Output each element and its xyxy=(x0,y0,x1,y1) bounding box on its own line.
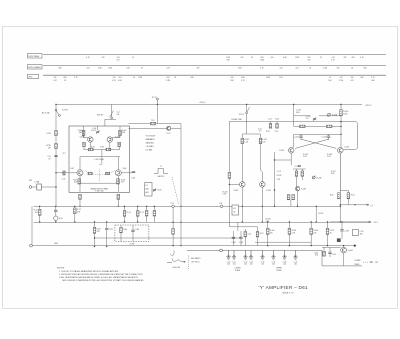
svg-text:8-50: 8-50 xyxy=(296,112,300,114)
resistor R-75 xyxy=(137,206,139,210)
capacitor C-84 in dashed box xyxy=(132,225,134,230)
junction right bus xyxy=(340,134,341,135)
low rail xyxy=(95,237,242,239)
capacitor C-243 on low rail xyxy=(232,237,235,238)
svg-text:.5-5: .5-5 xyxy=(306,118,309,120)
svg-text:1M: 1M xyxy=(48,147,51,149)
svg-text:−12 V: −12 V xyxy=(373,222,379,224)
capacitor C-244 right leg xyxy=(328,134,330,136)
wire V-48 collector up xyxy=(117,157,119,170)
wire V-464 collector to ground rail xyxy=(343,246,345,248)
wire box left edge to input bus xyxy=(56,172,69,174)
svg-text:470: 470 xyxy=(351,80,354,82)
lamp B-70 xyxy=(54,216,58,220)
resistor R-47A below V-47 xyxy=(78,179,81,184)
transistor V-43B xyxy=(107,137,112,142)
wire emitter cross connection xyxy=(80,182,118,184)
svg-text:2W: 2W xyxy=(197,67,200,69)
resistor R-265 lower right xyxy=(288,222,290,228)
connector J-11 on rail xyxy=(220,205,223,208)
capacitor C-248 above feedback pair xyxy=(298,165,301,166)
svg-text:4.5-25: 4.5-25 xyxy=(91,130,96,132)
svg-text:470: 470 xyxy=(121,182,124,184)
svg-text:SW 2B: SW 2B xyxy=(97,115,104,117)
svg-text:S-7 B7: S-7 B7 xyxy=(62,110,68,112)
svg-text:680: 680 xyxy=(239,67,242,69)
wire base feed to V-464 xyxy=(322,246,341,248)
svg-text:C-78A: C-78A xyxy=(34,181,40,184)
svg-text:120: 120 xyxy=(102,57,105,59)
delay line loop top xyxy=(242,133,260,135)
svg-text:C-24: C-24 xyxy=(274,131,278,133)
crossover wire left to right xyxy=(301,139,336,148)
svg-text:+17.5: +17.5 xyxy=(277,171,282,173)
supply rail -12V xyxy=(34,221,372,223)
ground terminal xyxy=(30,244,33,247)
svg-text:LIST FIG-3: LIST FIG-3 xyxy=(191,261,199,263)
table row 2 rule line xyxy=(43,65,386,67)
wire right side jog to V-244 xyxy=(261,170,263,182)
svg-text:120: 120 xyxy=(280,67,283,69)
resistor R-72 xyxy=(74,206,76,208)
svg-text:C-46: C-46 xyxy=(283,261,287,263)
svg-text:+2.2: +2.2 xyxy=(62,153,66,155)
wire R-44 to V-43B collector xyxy=(112,136,120,138)
svg-text:R-63: R-63 xyxy=(351,194,355,196)
resistor R-82 lower xyxy=(94,222,96,227)
bridge lower wire xyxy=(294,133,341,135)
svg-text:V-43A: V-43A xyxy=(80,136,86,139)
resistor R-267 lower right xyxy=(327,222,329,228)
svg-text:R-74: R-74 xyxy=(127,212,131,214)
wire interstage upper xyxy=(129,123,182,125)
test point TP-47 above rail xyxy=(156,100,158,105)
svg-text:VOLTS/DIV: VOLTS/DIV xyxy=(146,136,156,138)
resistor R-253 on bridge xyxy=(300,125,305,128)
svg-text:R-80: R-80 xyxy=(158,190,162,192)
amplifier stage enclosure box xyxy=(69,126,130,192)
wire R-52 to interconnect rail xyxy=(79,199,81,206)
capacitor C-465 xyxy=(329,247,331,252)
svg-text:.001: .001 xyxy=(227,264,230,266)
svg-text:DC BAL: DC BAL xyxy=(146,149,153,152)
junction on supply rail xyxy=(340,104,341,105)
stub from -12V rail xyxy=(237,222,239,231)
resistor R-48A below V-48 xyxy=(117,179,120,184)
trimmer capacitor C-43 xyxy=(96,130,99,134)
svg-text:R-24: R-24 xyxy=(266,131,270,133)
CRT connection stack 6 xyxy=(271,250,275,259)
wire V-47 base from input xyxy=(69,172,77,174)
svg-text:.001: .001 xyxy=(283,264,286,266)
svg-text:DELAY LINE: DELAY LINE xyxy=(232,118,243,121)
svg-text:47: 47 xyxy=(141,67,143,69)
capacitor C-70 xyxy=(55,206,57,210)
pot R-248 small xyxy=(312,176,315,179)
svg-text:.001: .001 xyxy=(232,264,235,266)
wire R-263 connections xyxy=(340,190,348,192)
resistor R-260 100K on right bus xyxy=(340,110,343,116)
feedback network resistor R-245a xyxy=(296,169,298,171)
table row 3 label box 'GRID' xyxy=(28,74,39,78)
svg-text:C-24: C-24 xyxy=(268,119,272,121)
svg-text:.01: .01 xyxy=(132,57,135,59)
svg-text:COMP: COMP xyxy=(129,243,135,245)
svg-text:.047: .047 xyxy=(166,67,170,69)
svg-text:C-47: C-47 xyxy=(62,179,66,181)
lower interconnect rail xyxy=(187,250,362,266)
svg-text:NOTES:: NOTES: xyxy=(57,267,65,269)
svg-text:C-244: C-244 xyxy=(321,136,326,138)
wire feedback top xyxy=(293,168,306,170)
ground rail xyxy=(32,245,355,247)
resistor R-246 divider xyxy=(244,229,246,232)
transistor V-254 xyxy=(338,148,344,154)
table row 3 rule line xyxy=(43,74,386,76)
mechanical linkage dashed xyxy=(172,177,179,204)
wire from rail to trimmer switch C-4 xyxy=(111,105,113,120)
junction on supply rail xyxy=(293,104,294,105)
svg-text:2. KNOB SETTINGS AS SHOWN UNL: 2. KNOB SETTINGS AS SHOWN UNLESS OTHERWI… xyxy=(59,273,143,276)
table row 1 rule line xyxy=(43,54,386,56)
svg-text:TC-2: TC-2 xyxy=(151,120,155,122)
svg-text:P-11: P-11 xyxy=(171,203,175,205)
svg-text:2-8: 2-8 xyxy=(117,114,120,116)
pot R-256 above bridge xyxy=(327,113,330,116)
svg-text:V-47: V-47 xyxy=(70,168,74,170)
svg-text:C-82: C-82 xyxy=(109,229,113,231)
resistor R-241 in left side xyxy=(241,138,244,143)
rounded feedback path to V-254 xyxy=(341,122,358,150)
transistor V-47 left of input pair xyxy=(77,170,83,176)
wire loop top from rail xyxy=(246,105,248,135)
svg-text:AC S-7A: AC S-7A xyxy=(42,112,50,115)
resistor R-254 on bridge xyxy=(327,125,332,128)
svg-text:P-44 P-4A: P-44 P-4A xyxy=(95,190,104,193)
svg-text:D-21: D-21 xyxy=(167,133,171,135)
svg-text:PLATE: PLATE xyxy=(354,263,360,266)
resistor R-7A on input bus xyxy=(55,144,58,149)
signal wire to output transistors xyxy=(229,120,341,122)
svg-text:470: 470 xyxy=(117,60,120,62)
svg-text:Q-464: Q-464 xyxy=(348,250,353,252)
inset pickoff detail drawing xyxy=(173,250,175,253)
wire V-43B emitter down xyxy=(118,147,120,150)
CRT connection stack 2 xyxy=(232,250,236,259)
dotted continuation to CRT xyxy=(363,261,373,263)
wire +350V supply rail xyxy=(56,104,362,106)
svg-text:447: 447 xyxy=(100,164,103,166)
svg-text:R-75: R-75 xyxy=(140,212,144,214)
capacitor C-8 on input bus xyxy=(54,156,57,157)
svg-text:R-248: R-248 xyxy=(317,177,322,179)
resistor R-244 on bias drop xyxy=(256,232,259,237)
CRT connection stack 8 xyxy=(293,250,297,259)
svg-text:R-24: R-24 xyxy=(275,119,279,121)
svg-text:L-43 220µH: L-43 220µH xyxy=(94,159,104,161)
output transistor V-464 xyxy=(341,247,347,253)
svg-text:V-253: V-253 xyxy=(279,150,284,152)
wire right bus below V-254 xyxy=(339,153,341,222)
capacitor C-268 lower right xyxy=(341,222,343,230)
resistor R-74 xyxy=(124,206,126,210)
svg-text:2.2M: 2.2M xyxy=(323,67,327,69)
svg-text:C-42: C-42 xyxy=(244,261,248,263)
wire gain network xyxy=(80,156,120,158)
CRT connection stack 7 xyxy=(282,250,286,259)
resistor R-43 33K xyxy=(82,130,85,135)
trimmer C-253 above bridge xyxy=(313,117,316,121)
switch S1 input coupling xyxy=(56,110,60,116)
wire V-254 emitter down xyxy=(339,153,341,190)
resistor R-78 on mid vertical xyxy=(172,229,175,235)
inductor L-21 on interstage wire xyxy=(151,122,156,125)
wire V-47 collector up xyxy=(79,157,81,170)
svg-text:+350 V: +350 V xyxy=(199,102,206,104)
svg-text:100: 100 xyxy=(271,57,274,59)
svg-text:ADJ: ADJ xyxy=(146,191,149,194)
component C-7A on input bus xyxy=(55,131,58,136)
svg-text:470: 470 xyxy=(241,57,244,59)
CRT connection stack 5 xyxy=(260,250,264,259)
svg-text:2W: 2W xyxy=(344,57,347,59)
resistor R-49 gang left xyxy=(88,172,92,175)
svg-text:C-268: C-268 xyxy=(344,231,349,233)
wire output tap arrowed xyxy=(340,204,369,206)
svg-text:R-62: R-62 xyxy=(330,194,334,196)
wire bridge left leg to V-253 xyxy=(293,134,295,147)
wire V-253 emitter down xyxy=(290,153,292,165)
resistor R-45 under V-43A xyxy=(83,142,86,146)
switch blade on loop feed xyxy=(247,107,250,112)
svg-text:C-24: C-24 xyxy=(247,234,251,236)
delay line loop right side xyxy=(260,134,262,170)
svg-text:R-245: R-245 xyxy=(277,175,282,177)
svg-text:ISSUE 4 · 61: ISSUE 4 · 61 xyxy=(283,293,294,295)
svg-text:.001: .001 xyxy=(261,264,264,266)
potentiometer R-80 xyxy=(153,188,156,192)
transistor V-246 small xyxy=(295,187,299,191)
svg-text:R-256: R-256 xyxy=(332,115,337,117)
svg-text:V-243: V-243 xyxy=(234,190,239,192)
wire emitter mid connections xyxy=(89,142,91,149)
svg-text:V-254: V-254 xyxy=(344,147,349,149)
svg-text:GAIN ADJ: GAIN ADJ xyxy=(146,142,155,145)
attenuator block C-78A xyxy=(37,184,42,190)
resistor R-76 pair a xyxy=(146,206,148,210)
wire feedback bottoms xyxy=(296,176,298,186)
svg-text:C-244: C-244 xyxy=(239,242,243,244)
shielded compensation dashed box xyxy=(115,225,149,242)
svg-text:LOWER: LOWER xyxy=(354,260,361,262)
svg-text:47: 47 xyxy=(320,57,322,59)
svg-text:PLATE: PLATE xyxy=(276,269,282,272)
wire base tap to V-243 xyxy=(229,183,239,185)
resistor R-264 lower right xyxy=(267,222,269,228)
wire trimmer to box top xyxy=(105,118,116,120)
wire long vertical interstage bus xyxy=(180,124,182,246)
resistor R-262 bracket a xyxy=(338,193,341,199)
wire V-244 emitter down xyxy=(261,187,263,222)
wire V-48 base to right xyxy=(121,172,135,174)
svg-text:C-43: C-43 xyxy=(249,261,253,263)
capacitor C-82 lower xyxy=(106,222,108,228)
bias wire lower xyxy=(229,226,257,228)
capacitor C-244 on low rail xyxy=(239,237,242,238)
wire lower output tap arrowed xyxy=(330,221,371,223)
wire V-464 emitter down to lower rail xyxy=(343,253,345,266)
capacitor C-48 right of box xyxy=(132,172,135,173)
small block above output xyxy=(337,238,341,242)
svg-text:100: 100 xyxy=(87,67,90,69)
wire drop from rail to bridge xyxy=(293,105,295,127)
svg-text:180: 180 xyxy=(360,234,363,236)
svg-text:TP 47: TP 47 xyxy=(152,97,157,99)
component C-45 box lower right xyxy=(352,230,358,236)
svg-text:PLATE: PLATE xyxy=(235,269,241,272)
svg-text:.01: .01 xyxy=(309,67,312,69)
svg-text:470: 470 xyxy=(74,182,77,184)
wire bias right drop xyxy=(257,227,259,232)
wire V-253 emitter to driver bus xyxy=(275,159,292,161)
svg-text:.001: .001 xyxy=(295,67,299,69)
svg-text:L-4B C-4B: L-4B C-4B xyxy=(172,267,181,269)
svg-text:.001: .001 xyxy=(249,264,252,266)
lower mid rail right xyxy=(255,241,311,243)
transistor V-253 xyxy=(288,148,294,154)
wire emitter row xyxy=(84,149,120,151)
svg-text:.001: .001 xyxy=(244,264,247,266)
relay box K-1 xyxy=(145,183,152,197)
bridge top wire xyxy=(294,125,341,127)
svg-text:.01: .01 xyxy=(133,77,136,79)
svg-text:4.7: 4.7 xyxy=(259,131,261,133)
svg-text:470: 470 xyxy=(270,232,273,234)
svg-text:BAL: BAL xyxy=(146,188,149,191)
svg-text:C-45: C-45 xyxy=(272,261,276,263)
resistor R-247 pair xyxy=(287,195,290,200)
resistor R-242 in right side xyxy=(259,138,262,143)
resistor R-266 lower right xyxy=(310,222,312,228)
CRT connection stack 4 xyxy=(249,250,253,259)
svg-text:C-243: C-243 xyxy=(231,242,235,244)
svg-text:2.2M: 2.2M xyxy=(166,80,170,82)
svg-text:.001: .001 xyxy=(294,264,297,266)
svg-text:TP-24: TP-24 xyxy=(239,114,244,116)
wire V-243 emitter down xyxy=(241,187,243,222)
crossover wire right to left xyxy=(295,139,328,148)
resistor R-48 emitter right xyxy=(106,148,111,151)
wire left edge down to ground xyxy=(31,206,33,244)
table row 1 label box 'FRONT PANEL' xyxy=(28,54,43,58)
wire V-243 base feed vertical xyxy=(228,121,230,226)
small block at loop lower left xyxy=(232,205,239,215)
svg-text:CRT: CRT xyxy=(375,262,378,264)
wire from rail junction down to interstage pair xyxy=(156,105,158,124)
svg-text:V-244: V-244 xyxy=(266,190,271,192)
svg-text:47: 47 xyxy=(48,158,50,160)
svg-text:3. ALL RESISTANCE VALUES ARE: 3. ALL RESISTANCE VALUES ARE IN OHMS, K=… xyxy=(59,276,138,279)
CRT connection stack 3 xyxy=(243,250,247,259)
interconnect rail mid right part xyxy=(223,205,341,207)
delay line loop left side xyxy=(241,134,243,182)
resistor R-263 bracket b xyxy=(347,193,350,199)
resistor R-50 gang right xyxy=(106,172,110,175)
svg-text:680: 680 xyxy=(352,57,355,59)
svg-text:C-84: C-84 xyxy=(135,229,139,231)
svg-text:J-11: J-11 xyxy=(219,203,222,205)
resistor R-53 below box right xyxy=(117,194,120,199)
svg-text:V-48: V-48 xyxy=(123,168,127,170)
svg-text:.001: .001 xyxy=(272,264,275,266)
svg-text:×10 MAG: ×10 MAG xyxy=(146,145,155,148)
resistor R-70 1M xyxy=(39,206,41,209)
resistor R-465 xyxy=(323,247,325,251)
wire R-43 to V-43A collector xyxy=(84,136,89,138)
wire cascode bases xyxy=(83,126,85,137)
svg-text:680: 680 xyxy=(372,80,375,82)
wire attenuator to amplifier xyxy=(41,186,56,188)
capacitor C-243 left leg xyxy=(300,134,302,136)
ganged coupling dotted network xyxy=(85,171,115,175)
svg-text:2.2M: 2.2M xyxy=(339,80,343,82)
wire R-247 to rail xyxy=(290,200,292,207)
svg-text:+225 V: +225 V xyxy=(365,105,373,107)
svg-text:(+): (+) xyxy=(371,205,374,207)
interconnect rail mid xyxy=(34,205,222,207)
svg-text:R-259: R-259 xyxy=(318,213,323,215)
diode D-21 on lower interstage wire xyxy=(167,126,171,130)
capacitor C-247 hanging from signal wire xyxy=(276,121,278,123)
wire V-246 emitter to rail xyxy=(297,191,299,206)
input terminal J1 xyxy=(29,186,32,189)
svg-text:.047: .047 xyxy=(53,80,57,82)
svg-text:C-243: C-243 xyxy=(294,136,299,138)
wire V-43A emitter down xyxy=(83,147,85,150)
transistor V-43A xyxy=(88,137,93,142)
svg-text:1. CIRCUIT VOLTAGES MEASURED: 1. CIRCUIT VOLTAGES MEASURED WITH NO SIG… xyxy=(59,270,119,273)
svg-text:GATE 1V: GATE 1V xyxy=(157,175,165,178)
connector on lower rail xyxy=(220,249,223,252)
switch S2 blade xyxy=(110,111,114,118)
junction on rail at input bus xyxy=(55,104,56,105)
svg-text:470: 470 xyxy=(337,67,340,69)
wire right bus from rail xyxy=(340,105,342,148)
resistor R-84 in dashed box xyxy=(120,225,122,227)
svg-text:2.2M: 2.2M xyxy=(138,77,142,79)
svg-text:MFD UNLESS OTHERWISE NOTED. AL: MFD UNLESS OTHERWISE NOTED. ALL RESISTOR… xyxy=(63,279,145,282)
svg-text:2W: 2W xyxy=(308,60,311,62)
resistor R-76 pair b xyxy=(153,206,155,210)
wire emitters to box bottom xyxy=(79,176,81,193)
wire driver bus vertical xyxy=(274,152,276,206)
capacitor C-246 hanging from signal wire xyxy=(270,121,272,123)
svg-text:B-70: B-70 xyxy=(59,218,63,220)
svg-text:C-47: C-47 xyxy=(294,261,298,263)
connector P-11 on rail xyxy=(172,205,175,208)
svg-text:680: 680 xyxy=(361,77,364,79)
wire trimmer row xyxy=(294,115,311,117)
transistor V-243 xyxy=(240,182,246,188)
svg-text:R-84: R-84 xyxy=(123,229,127,231)
resistor R-52 below box xyxy=(79,194,82,199)
resistor R-47 emitter left xyxy=(88,148,93,151)
capacitor C-47 on base wire outside box xyxy=(63,171,65,175)
svg-text:SEE PARTS: SEE PARTS xyxy=(191,257,201,260)
svg-text:C-46: C-46 xyxy=(332,254,336,256)
resistor R-46 under V-43B xyxy=(118,142,121,146)
svg-text:C-41: C-41 xyxy=(232,261,236,263)
